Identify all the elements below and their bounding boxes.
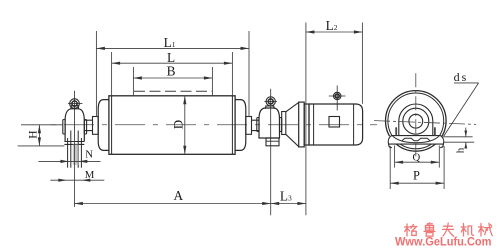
strap side tabs <box>395 127 397 135</box>
right shaft <box>252 119 260 121</box>
svg-text:N: N <box>85 149 93 161</box>
right housing right ear <box>280 118 282 132</box>
strap key profile <box>402 138 430 141</box>
gearbox flange disc 1 <box>299 102 305 147</box>
dim A extension left <box>74 137 76 207</box>
gearbox small flange bar <box>282 112 286 135</box>
svg-text:B: B <box>167 64 176 79</box>
right housing foot <box>266 138 279 146</box>
strap white mask <box>389 136 443 143</box>
glyph ge <box>405 224 410 236</box>
end view crosshair horizontal <box>374 121 476 125</box>
bolt left bearing <box>70 99 80 109</box>
arrowheads A <box>74 202 83 205</box>
arrowheads B <box>133 76 142 79</box>
dim L2 line <box>306 31 363 33</box>
dim A line <box>74 203 270 205</box>
arrowheads Q <box>395 161 404 164</box>
drum right end cap <box>235 100 246 151</box>
arrowheads H <box>38 125 41 134</box>
left bearing housing <box>65 109 84 142</box>
centerline main axis <box>50 124 377 126</box>
left housing cap <box>71 106 79 109</box>
dim h lines <box>442 136 473 138</box>
svg-text:Q: Q <box>412 151 420 163</box>
svg-text:P: P <box>413 168 420 182</box>
arrowheads L3 <box>271 202 280 205</box>
glyph lu <box>427 223 433 226</box>
dim L line <box>112 62 233 64</box>
arrowheads P <box>390 182 399 185</box>
dim P extension lines <box>389 146 391 189</box>
strap right hook <box>440 136 444 148</box>
dim B line <box>133 77 212 79</box>
motor terminal box <box>329 117 340 128</box>
B dashed reference line <box>134 90 212 92</box>
svg-text:L1: L1 <box>164 35 176 50</box>
dim A extension right <box>270 146 272 215</box>
dim Q line <box>395 161 440 163</box>
dim B extension lines <box>132 67 134 96</box>
mounting strap top <box>392 135 441 137</box>
drum body <box>109 96 235 155</box>
motor eyebolt <box>334 92 341 99</box>
dim M line <box>50 179 104 181</box>
dim L3 line <box>271 203 306 205</box>
arrowheads h <box>464 131 467 137</box>
drum left end cap <box>98 100 109 151</box>
motor end bell lines <box>313 104 315 145</box>
svg-text:Www.GeLufu.Com: Www.GeLufu.Com <box>395 235 492 249</box>
arrowheads M <box>58 179 67 182</box>
dim L1 extension lines <box>95 31 97 117</box>
dim P line <box>390 182 444 184</box>
glyph ji <box>461 224 466 237</box>
strap left hook <box>388 136 392 148</box>
left housing left ear <box>63 120 65 135</box>
ds leader line <box>444 83 479 136</box>
gearbox flange disc 2 <box>304 104 309 145</box>
end view hub circle <box>403 108 429 134</box>
svg-text:A: A <box>173 188 183 203</box>
bolt right bearing <box>266 97 275 106</box>
motor body <box>309 104 363 145</box>
end view crosshair vertical <box>415 73 417 158</box>
end view shaft circle <box>409 114 423 128</box>
glyph xie <box>479 224 484 237</box>
arrowheads L <box>112 62 121 65</box>
svg-text:M: M <box>85 169 95 181</box>
dim L extension lines <box>111 52 113 96</box>
left bracket legs <box>67 138 69 168</box>
left shaft <box>84 119 92 121</box>
left bracket bed lines <box>64 141 84 143</box>
svg-text:L3: L3 <box>280 188 292 203</box>
dim Q extension lines <box>394 146 396 168</box>
end view rim circle <box>388 93 444 149</box>
mounting strap bottom <box>389 143 444 145</box>
dim H lines <box>21 124 63 126</box>
dim N line <box>38 160 100 162</box>
left bracket slot lines <box>70 131 72 168</box>
strap smile profile <box>393 136 439 142</box>
svg-text:H: H <box>27 130 39 138</box>
left bracket slot shading <box>73 144 79 165</box>
svg-text:D: D <box>171 120 186 129</box>
right bearing housing <box>259 108 280 138</box>
drum right face line <box>231 96 233 155</box>
svg-text:ds: ds <box>454 70 469 84</box>
gearbox cone <box>286 102 299 111</box>
svg-text:L: L <box>167 50 175 65</box>
arrowheads N <box>60 160 69 163</box>
dim L2 extension right <box>361 23 363 104</box>
end view bearing arch <box>399 104 433 135</box>
dim L2 extension left (long) <box>305 23 307 216</box>
drum left face line <box>111 96 113 155</box>
end view outer circle <box>386 91 447 152</box>
arrowheads L1 <box>96 47 105 50</box>
left housing right ear <box>84 120 86 135</box>
right shaft collar <box>246 117 252 135</box>
left shaft collar <box>93 117 99 135</box>
svg-text:h: h <box>455 147 467 153</box>
right housing cap <box>265 106 274 109</box>
glyph fu <box>443 223 454 236</box>
dim D line <box>184 96 186 155</box>
dim L1 line <box>96 47 249 49</box>
arrowheads D <box>183 96 186 105</box>
right housing left ear <box>257 118 259 132</box>
watermark chinese brand glyphs <box>405 223 493 236</box>
svg-text:L2: L2 <box>326 18 338 33</box>
ds underline <box>454 82 479 84</box>
arrowheads L2 <box>306 30 315 33</box>
